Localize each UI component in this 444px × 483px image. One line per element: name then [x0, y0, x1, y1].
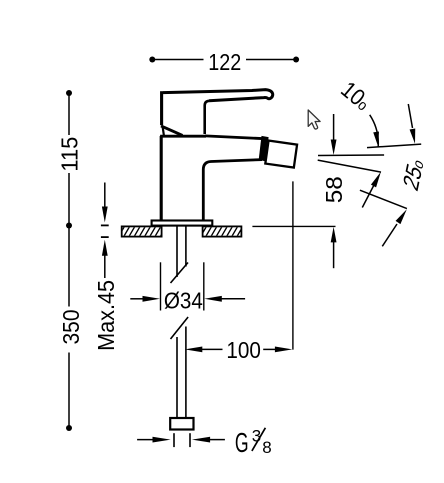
faucet handle lever	[163, 90, 273, 134]
svg-text:G: G	[235, 427, 249, 458]
dim 350 line	[68, 226, 70, 429]
countertop surface extension line	[252, 225, 335, 227]
dim O34 arrow right	[204, 296, 222, 302]
dim G3/8 tick right	[189, 433, 191, 447]
svg-text:8: 8	[262, 438, 271, 457]
svg-text:58: 58	[321, 176, 347, 203]
svg-text:100: 100	[226, 337, 261, 363]
line T1 10deg	[318, 160, 381, 172]
svg-text:122: 122	[208, 49, 241, 75]
dim 122 dot right	[293, 57, 299, 63]
mouse cursor	[308, 110, 320, 129]
dim 115 dot top	[66, 90, 72, 96]
svg-text:Ø34: Ø34	[164, 288, 203, 314]
dim 58 arrow down	[333, 114, 335, 142]
svg-text:Max.45: Max.45	[93, 280, 119, 351]
dim G3/8 arrow right	[192, 437, 210, 443]
spout top line	[205, 136, 265, 139]
handle base diagonal	[161, 126, 183, 135]
aerator tip	[265, 141, 297, 168]
dim Max.45 tick top	[101, 224, 109, 226]
countertop left block	[118, 226, 167, 238]
supply pipe left line	[176, 226, 178, 418]
dim G3/8 text	[235, 426, 272, 458]
dim 100 ext line vertical	[292, 181, 294, 349]
break slash upper	[171, 263, 189, 284]
break slash lower	[171, 317, 189, 339]
dim G3/8 arrow left	[137, 439, 153, 441]
G3/8 connector	[170, 418, 193, 430]
line H2 outlet reference	[318, 154, 384, 157]
dim 122 line	[152, 59, 296, 61]
dim Max.45 arrow up	[102, 240, 108, 256]
dim 100 arrow right	[263, 348, 276, 350]
body left edge	[160, 136, 163, 221]
supply pipe right line	[185, 226, 187, 418]
dim Max.45 arrow down	[104, 183, 106, 209]
dim 350 dot bottom	[66, 425, 72, 431]
dim 10deg right arrow	[408, 104, 412, 128]
countertop right block	[200, 226, 243, 238]
dim 122 dot left	[149, 57, 155, 63]
dim 115 dot bottom	[66, 223, 72, 229]
dim 25deg arrow on T2	[382, 224, 397, 246]
handle left edge	[160, 91, 163, 125]
dim 115 line	[68, 93, 70, 226]
dim O34 arrow left	[130, 298, 143, 300]
body seam line	[160, 135, 206, 138]
dim 100 arrow left	[185, 347, 203, 353]
line H1 horizontal reference	[367, 144, 421, 148]
svg-text:115: 115	[56, 137, 82, 172]
spout underside	[203, 160, 262, 220]
spout dark band	[259, 136, 269, 162]
dim 58 arrow up	[331, 227, 337, 243]
dim 25deg arrow on T1	[362, 184, 374, 208]
dim 10deg arc arrow	[370, 115, 379, 147]
dim G3/8 tick left	[173, 433, 175, 447]
svg-text:350: 350	[58, 310, 84, 345]
dim Max.45 tick bottom	[101, 236, 109, 238]
base flange	[152, 221, 213, 226]
handle base small vertical	[163, 127, 164, 136]
dim O34 ext lines	[161, 262, 204, 310]
line T2 25deg	[360, 190, 407, 208]
